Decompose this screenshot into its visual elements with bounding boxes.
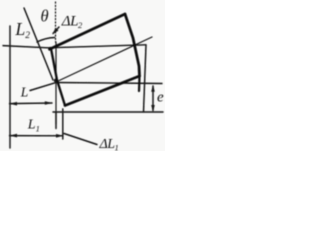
arrowhead Delta L2	[53, 28, 59, 34]
pivot junction	[54, 79, 57, 82]
extension tick for L1	[62, 109, 64, 139]
svg-text:L: L	[20, 85, 29, 100]
arrowhead e up	[151, 85, 155, 92]
corner junction	[49, 47, 52, 50]
left reference ruler	[9, 26, 11, 148]
rotated bar left edge	[51, 49, 65, 106]
leader to Delta L1 label	[64, 134, 97, 145]
dotted vertical original edge extension	[55, 2, 57, 42]
svg-text:ΔL1: ΔL1	[99, 137, 119, 151]
dimension line L1	[10, 135, 64, 137]
dimension line L	[10, 102, 53, 105]
rotated centerline diagonal	[56, 37, 152, 82]
svg-text:L1: L1	[27, 118, 40, 134]
pivot horizontal centerline	[56, 83, 162, 84]
rotated bar right edge	[125, 14, 140, 76]
e dimension line	[152, 86, 154, 111]
rotated bar thick outline	[50, 14, 140, 106]
svg-text:ΔL2: ΔL2	[61, 14, 83, 30]
rotated edge extension line	[24, 8, 53, 80]
leader from L to pivot	[30, 83, 55, 91]
fixed left edge extension down	[55, 112, 57, 129]
fixed bar right edge	[144, 45, 147, 112]
arrow line for Delta L2	[53, 27, 59, 34]
arrowhead L1 right	[56, 134, 64, 138]
rotated bar top edge	[50, 14, 126, 49]
arrowhead L left	[10, 102, 18, 106]
arrowhead L1 left	[10, 134, 18, 138]
rotated bar bottom edge	[65, 76, 140, 106]
top reference line	[3, 45, 146, 48]
arrowhead L right	[45, 101, 53, 105]
svg-text:e: e	[157, 90, 164, 106]
fixed bar left edge	[55, 42, 57, 124]
svg-text:L2: L2	[15, 19, 31, 41]
arrowhead e down	[151, 105, 155, 112]
fixed bar bottom edge	[53, 111, 163, 113]
rotated bar right edge overshoot	[138, 76, 141, 91]
theta arc	[37, 38, 55, 43]
svg-text:θ: θ	[41, 7, 49, 26]
